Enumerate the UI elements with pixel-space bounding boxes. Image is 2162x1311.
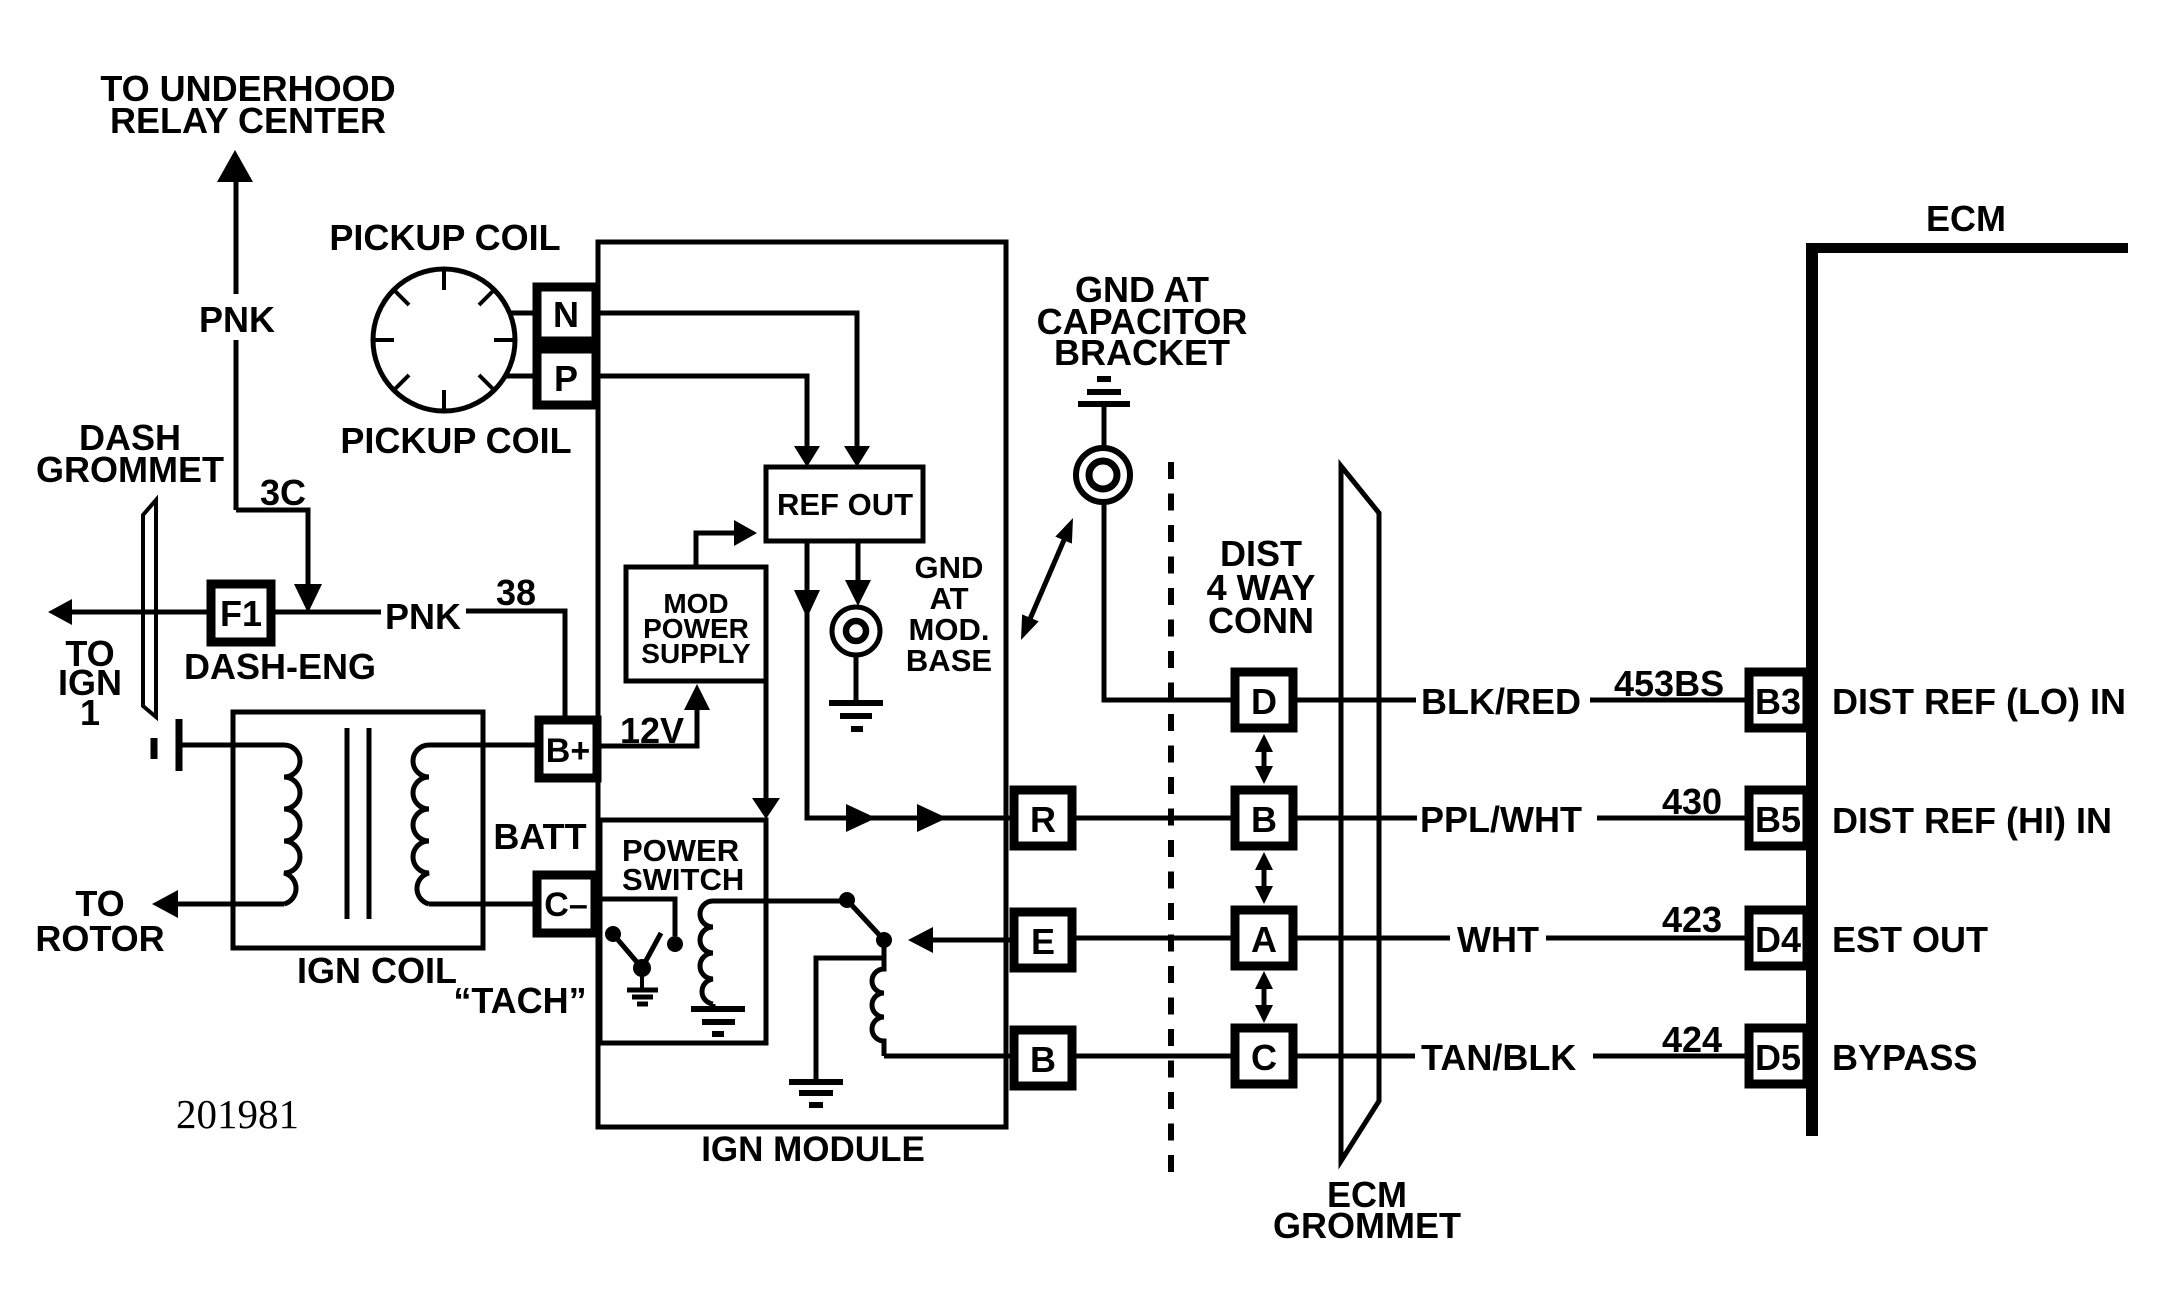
inverted ground at capacitor bracket xyxy=(1078,379,1130,404)
primary winding xyxy=(284,745,300,904)
wire E terminal xyxy=(931,938,1012,943)
ECM pin B5 xyxy=(1749,790,1807,846)
svg-text:GND: GND xyxy=(915,550,984,585)
ECM pin D5 xyxy=(1749,1028,1807,1084)
arrow mid vertical ref out left xyxy=(794,590,820,618)
svg-text:SUPPLY: SUPPLY xyxy=(641,638,751,669)
wire B to dist C xyxy=(1076,1054,1231,1059)
terminal C- xyxy=(537,875,595,933)
label DIST 4 WAY CONN xyxy=(1207,533,1316,641)
terminal E xyxy=(1014,912,1072,968)
power switch box xyxy=(600,820,766,1043)
wire REF OUT to R row xyxy=(807,541,1012,818)
secondary winding xyxy=(413,745,429,904)
label TO IGN 1 xyxy=(58,633,122,733)
wire 3C jog xyxy=(236,510,308,586)
wire capacitor bracket to D xyxy=(1104,502,1231,700)
svg-text:B: B xyxy=(1251,799,1277,840)
svg-text:ECM: ECM xyxy=(1926,198,2006,239)
power switch coil xyxy=(700,901,713,1004)
double arrow B-A xyxy=(1255,852,1273,904)
arrow into gnd ring xyxy=(845,580,871,606)
wire dist A to ECM D4 xyxy=(1293,936,1749,941)
svg-text:ROTOR: ROTOR xyxy=(35,918,164,959)
connector dist B xyxy=(1235,790,1293,846)
svg-text:201981: 201981 xyxy=(176,1091,299,1137)
svg-text:R: R xyxy=(1030,799,1056,840)
svg-text:3C: 3C xyxy=(260,472,306,513)
wire mod power supply down to power switch xyxy=(764,681,769,800)
svg-text:PICKUP COIL: PICKUP COIL xyxy=(329,217,560,258)
ECM boundary line xyxy=(1806,243,2128,1136)
svg-text:GROMMET: GROMMET xyxy=(36,449,224,490)
wire pickup to P xyxy=(505,374,533,379)
REF OUT block xyxy=(766,467,923,541)
svg-text:C: C xyxy=(1251,1037,1277,1078)
label DASH GROMMET xyxy=(36,417,224,490)
ignition coil box xyxy=(233,712,483,948)
svg-text:B5: B5 xyxy=(1755,799,1801,840)
wire dist C to ECM D5 xyxy=(1293,1054,1749,1059)
label TO ROTOR xyxy=(35,883,164,959)
svg-text:12V: 12V xyxy=(620,710,684,751)
label TO UNDERHOOD RELAY CENTER xyxy=(100,68,395,141)
svg-text:BATT: BATT xyxy=(493,816,586,857)
arrow to underhood relay center xyxy=(217,150,253,182)
arrow into REF OUT left xyxy=(734,520,757,546)
EST switch blade xyxy=(847,900,884,940)
arrow TO IGN 1 (left) xyxy=(48,599,72,625)
svg-text:TAN/BLK: TAN/BLK xyxy=(1421,1037,1576,1078)
svg-text:BASE: BASE xyxy=(906,643,992,678)
wire REF OUT to gnd ring xyxy=(856,541,861,582)
label ECM GROMMET xyxy=(1273,1174,1461,1246)
svg-text:38: 38 xyxy=(496,572,536,613)
arrow 12V into mod power supply xyxy=(684,684,710,710)
svg-text:B: B xyxy=(1030,1039,1056,1080)
arrow into F1 wire node xyxy=(294,584,322,613)
arrow on R wire 1 xyxy=(846,804,876,832)
arrow from E terminal xyxy=(908,927,933,953)
svg-text:BRACKET: BRACKET xyxy=(1054,332,1230,373)
svg-text:F1: F1 xyxy=(220,593,262,634)
wire F1 row left xyxy=(70,610,207,615)
terminal B xyxy=(1014,1030,1072,1086)
wire 12V from B+ xyxy=(601,708,697,746)
terminal B+ xyxy=(539,720,597,778)
wire secondary bottom to C- xyxy=(429,902,535,907)
core lines xyxy=(347,728,369,919)
svg-text:DASH-ENG: DASH-ENG xyxy=(184,646,376,687)
double arrow to module base xyxy=(1021,518,1073,640)
fuse F1 xyxy=(211,584,271,642)
dashed line (bulkhead) xyxy=(1168,462,1174,1183)
svg-text:AT: AT xyxy=(929,581,968,616)
svg-text:SWITCH: SWITCH xyxy=(622,862,744,897)
wire mod power supply to ref out xyxy=(696,533,736,567)
wire bypass coil to B terminal xyxy=(884,1054,1012,1059)
ground under bypass bracket xyxy=(789,1082,843,1105)
ECM pin D4 xyxy=(1749,910,1807,966)
arrow on R wire 2 xyxy=(917,804,947,832)
wire coil top to EST switch pivot xyxy=(713,899,847,904)
svg-text:EST OUT: EST OUT xyxy=(1832,919,1988,960)
wire N into module xyxy=(600,313,857,448)
bypass coil bracket to ground xyxy=(816,940,884,1080)
MOD POWER SUPPLY block xyxy=(626,567,766,681)
connector dist A xyxy=(1235,910,1293,966)
double arrow D-B xyxy=(1255,734,1273,784)
chassis connection symbol at ign coil xyxy=(154,719,179,771)
svg-text:IGN COIL: IGN COIL xyxy=(297,950,457,991)
gnd ring at capacitor bracket xyxy=(1076,448,1130,502)
connector dist C xyxy=(1235,1028,1293,1084)
svg-text:PICKUP COIL: PICKUP COIL xyxy=(340,420,571,461)
dash grommet xyxy=(143,500,156,717)
svg-text:DIST REF (HI) IN: DIST REF (HI) IN xyxy=(1832,800,2112,841)
EST switch common node xyxy=(876,932,892,948)
EST switch pivot node xyxy=(839,892,855,908)
svg-text:N: N xyxy=(553,294,579,335)
terminal P xyxy=(537,349,596,405)
svg-text:453BS: 453BS xyxy=(1614,663,1724,704)
svg-text:PNK: PNK xyxy=(199,299,275,340)
ground under switch pivot xyxy=(627,976,658,1004)
svg-text:D4: D4 xyxy=(1755,919,1801,960)
ground at module base xyxy=(829,655,883,729)
svg-text:DIST REF (LO) IN: DIST REF (LO) IN xyxy=(1832,681,2126,722)
arrow TO ROTOR xyxy=(152,890,178,918)
svg-text:B3: B3 xyxy=(1755,681,1801,722)
svg-text:430: 430 xyxy=(1662,781,1722,822)
ECM grommet shape xyxy=(1341,466,1379,1161)
svg-text:BYPASS: BYPASS xyxy=(1832,1037,1977,1078)
ECM pin B3 xyxy=(1749,672,1807,728)
wire R to dist B xyxy=(1076,816,1231,821)
connector dist D xyxy=(1235,672,1293,728)
svg-text:GROMMET: GROMMET xyxy=(1273,1205,1461,1246)
svg-text:C–: C– xyxy=(544,886,587,924)
bypass coil xyxy=(872,958,884,1056)
double arrow A-C xyxy=(1255,971,1273,1023)
label GND AT CAPACITOR BRACKET xyxy=(1037,269,1248,373)
svg-text:D: D xyxy=(1251,681,1277,722)
wire dist B to ECM B5 xyxy=(1293,816,1749,821)
wire secondary top to B+ xyxy=(429,743,535,748)
pickup coil circle with ticks xyxy=(373,269,515,411)
node switch contact right xyxy=(667,936,683,952)
gnd ring at module base xyxy=(832,607,880,655)
ground under power switch coil xyxy=(691,1004,745,1034)
wire chassis to primary winding xyxy=(182,743,284,748)
node switch contact left xyxy=(605,926,621,942)
svg-text:PNK: PNK xyxy=(385,596,461,637)
svg-text:IGN MODULE: IGN MODULE xyxy=(701,1130,925,1169)
arrow P into REF OUT xyxy=(794,446,820,467)
terminal R xyxy=(1014,790,1072,846)
svg-text:REF OUT: REF OUT xyxy=(777,487,913,522)
svg-text:D5: D5 xyxy=(1755,1037,1801,1078)
wire dist D to ECM B3 xyxy=(1293,698,1749,703)
svg-text:WHT: WHT xyxy=(1457,919,1539,960)
arrow N into REF OUT xyxy=(844,446,870,467)
svg-text:MOD.: MOD. xyxy=(909,612,990,647)
wire primary bottom to rotor xyxy=(176,902,284,907)
wire P into module xyxy=(600,376,807,448)
svg-text:423: 423 xyxy=(1662,899,1722,940)
svg-text:1: 1 xyxy=(80,692,100,733)
svg-text:P: P xyxy=(554,358,578,399)
terminal N xyxy=(537,287,596,341)
wire F1 to PNK label xyxy=(275,610,381,615)
wire 38 to B+ xyxy=(466,611,565,716)
wire ground to ring xyxy=(1102,406,1107,447)
arrow into power switch box xyxy=(752,798,780,819)
svg-text:“TACH”: “TACH” xyxy=(453,980,586,1021)
switch blade and pivot xyxy=(613,933,661,977)
svg-text:CONN: CONN xyxy=(1208,600,1314,641)
wire C- into switch contact xyxy=(599,899,675,936)
ignition module box xyxy=(598,242,1006,1127)
wire E to dist A xyxy=(1076,936,1231,941)
svg-text:BLK/RED: BLK/RED xyxy=(1421,681,1581,722)
svg-text:424: 424 xyxy=(1662,1019,1722,1060)
svg-text:PPL/WHT: PPL/WHT xyxy=(1420,799,1582,840)
wire pickup to N xyxy=(508,311,533,316)
wire PNK vertical (underhood feed) xyxy=(234,181,239,510)
label POWER SWITCH xyxy=(622,833,744,897)
svg-text:RELAY CENTER: RELAY CENTER xyxy=(110,100,386,141)
svg-text:A: A xyxy=(1251,919,1277,960)
svg-text:E: E xyxy=(1031,921,1055,962)
label GND AT MOD. BASE xyxy=(906,550,992,678)
svg-text:B+: B+ xyxy=(546,732,590,770)
